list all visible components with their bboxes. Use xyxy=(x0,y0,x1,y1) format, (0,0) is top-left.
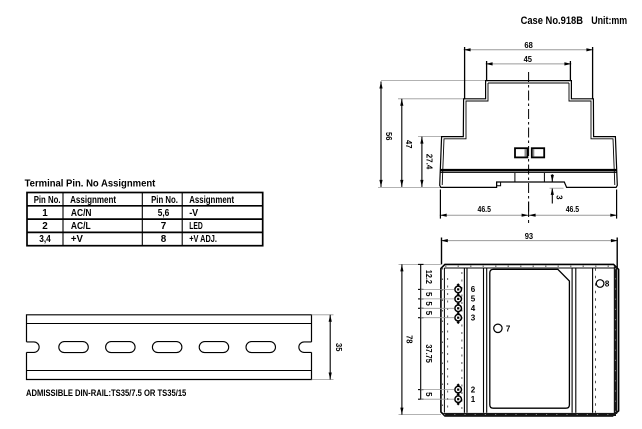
screw 1 xyxy=(455,396,462,403)
svg-text:7: 7 xyxy=(161,221,167,232)
svg-text:Pin No.: Pin No. xyxy=(151,195,178,206)
svg-text:4: 4 xyxy=(471,304,476,313)
svg-text:AC/N: AC/N xyxy=(71,208,92,219)
svg-text:1: 1 xyxy=(471,395,476,404)
dimension 47 xyxy=(400,99,413,187)
hidden dashed line left xyxy=(447,278,449,408)
extension line bottom y=187.5 xyxy=(378,187,441,189)
svg-text:12.2: 12.2 xyxy=(424,270,433,284)
dimension 78 xyxy=(399,264,442,414)
table header separator xyxy=(27,205,263,207)
screw 4 xyxy=(455,305,462,312)
dimension 3 (notch depth) xyxy=(550,174,564,203)
body outline with chamfered corners xyxy=(441,264,619,416)
table row line 2 xyxy=(27,218,263,220)
svg-text:3,4: 3,4 xyxy=(39,234,51,245)
table outer border xyxy=(27,193,263,246)
svg-text:Assignment: Assignment xyxy=(189,195,234,206)
svg-text:5: 5 xyxy=(424,292,433,297)
svg-text:5,6: 5,6 xyxy=(158,208,170,219)
case inner wall left step1 xyxy=(442,83,488,185)
din clip block left vertical xyxy=(514,173,516,182)
screw 5 xyxy=(455,296,462,303)
svg-text:68: 68 xyxy=(524,41,533,50)
svg-text:Assignment: Assignment xyxy=(70,195,117,206)
svg-text:+V ADJ.: +V ADJ. xyxy=(189,234,217,245)
pin number labels xyxy=(471,285,476,404)
svg-text:Terminal Pin. No Assignment: Terminal Pin. No Assignment xyxy=(25,179,156,190)
terminal window right xyxy=(532,148,544,157)
center dash-dot line xyxy=(528,72,530,223)
svg-text:37.75: 37.75 xyxy=(424,344,433,363)
svg-text:+V: +V xyxy=(71,234,83,245)
svg-text:ADMISSIBLE DIN-RAIL:TS35/7.5 O: ADMISSIBLE DIN-RAIL:TS35/7.5 OR TS35/15 xyxy=(26,388,186,398)
base thin line xyxy=(440,172,617,174)
svg-text:7: 7 xyxy=(506,324,511,333)
svg-text:AC/L: AC/L xyxy=(71,221,91,232)
top edge tick marks xyxy=(445,265,613,267)
dimension 27.4 xyxy=(420,137,433,187)
table column line 1 xyxy=(62,193,64,246)
base thick line xyxy=(440,169,617,172)
rail outline xyxy=(27,315,312,380)
svg-text:Unit:mm: Unit:mm xyxy=(591,15,627,27)
svg-text:45: 45 xyxy=(524,55,533,64)
svg-text:5: 5 xyxy=(424,301,433,306)
svg-text:8: 8 xyxy=(161,234,167,245)
terminal column line b xyxy=(466,268,468,413)
extension line y=98.8 for dim 47 xyxy=(398,98,464,100)
rail slot 2 xyxy=(106,342,136,353)
extension line y=136.6 for dim 27.4 xyxy=(418,136,442,138)
svg-text:-V: -V xyxy=(189,208,198,219)
rail left edge notch xyxy=(27,342,40,353)
rail right edge notch xyxy=(299,342,312,353)
svg-text:46.5: 46.5 xyxy=(566,205,580,214)
svg-text:5: 5 xyxy=(424,311,433,316)
body right shaded band xyxy=(614,267,617,415)
svg-text:93: 93 xyxy=(525,232,534,241)
panel line c xyxy=(483,268,485,413)
center cover panel xyxy=(490,269,570,408)
rail slot 1 xyxy=(59,342,89,353)
svg-text:LED: LED xyxy=(189,221,203,232)
svg-text:78: 78 xyxy=(405,335,414,344)
body bottom shaded band xyxy=(444,413,617,416)
hidden dashed line near terminal column xyxy=(461,272,463,411)
hidden dashed line right xyxy=(595,268,597,413)
svg-text:Pin No.: Pin No. xyxy=(34,195,61,206)
svg-text:Case No.918B: Case No.918B xyxy=(521,15,584,27)
dimension 93 xyxy=(441,232,618,268)
svg-text:56: 56 xyxy=(384,132,393,141)
dimension 56 xyxy=(379,82,393,187)
table column line 3 xyxy=(181,193,183,246)
table column line 2 xyxy=(141,193,143,246)
LED window 7 xyxy=(494,324,502,332)
potentiometer 8 xyxy=(596,280,604,288)
svg-text:2: 2 xyxy=(42,221,48,232)
dimension 35 xyxy=(312,315,344,380)
panel line f xyxy=(575,268,577,413)
svg-text:6: 6 xyxy=(471,285,476,294)
dimension 46.5 left and right xyxy=(440,190,618,219)
panel line g xyxy=(592,268,594,413)
screw 6 xyxy=(455,286,462,293)
rail slot 3 xyxy=(152,342,182,353)
svg-text:8: 8 xyxy=(605,280,610,289)
svg-text:2: 2 xyxy=(471,385,476,394)
table texts xyxy=(34,195,235,245)
table row line 3 xyxy=(27,231,263,233)
rail bottom inner line xyxy=(27,370,312,372)
din clip latch hook xyxy=(497,182,501,186)
case outer profile xyxy=(440,81,618,188)
svg-text:5: 5 xyxy=(424,392,433,397)
screw separator diamonds xyxy=(457,283,460,405)
terminal column line a xyxy=(463,268,465,413)
svg-text:47: 47 xyxy=(404,140,413,149)
rail slot 5 xyxy=(246,342,276,353)
screw 3 xyxy=(455,314,462,321)
screw 2 xyxy=(455,386,462,393)
case inner wall line top xyxy=(488,82,569,84)
extension line y=80.6 for dim 56 xyxy=(381,80,486,82)
rail slot 4 xyxy=(199,342,229,353)
terminal window left xyxy=(515,148,527,157)
panel line d xyxy=(486,268,488,413)
svg-text:3: 3 xyxy=(471,314,476,323)
svg-text:3: 3 xyxy=(555,195,564,200)
svg-text:46.5: 46.5 xyxy=(478,205,492,214)
svg-text:1: 1 xyxy=(42,208,48,219)
svg-text:35: 35 xyxy=(334,343,343,352)
din clip block right vertical xyxy=(543,173,545,182)
rail top inner line xyxy=(27,323,312,325)
dimension 45 xyxy=(486,55,572,81)
body left inner line xyxy=(443,268,445,413)
svg-text:27.4: 27.4 xyxy=(424,154,433,170)
panel line e xyxy=(571,268,573,413)
dimension 68 xyxy=(464,41,594,99)
left edge tick marks xyxy=(442,268,444,412)
terminal screws 6..3 and 2,1 xyxy=(455,286,462,402)
svg-text:5: 5 xyxy=(471,295,476,304)
body top inner line xyxy=(444,267,614,269)
stacked pin dimensions 12.2 / 5 / 5 / 5 / 37.75 / 5 xyxy=(418,264,454,399)
case inner wall right step1 xyxy=(569,83,615,185)
